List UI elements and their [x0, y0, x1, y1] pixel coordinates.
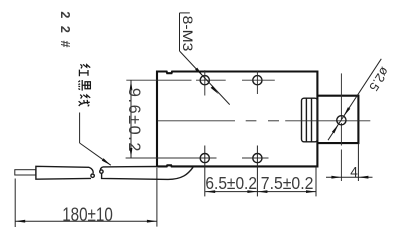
char hei [78, 80, 90, 91]
dimension 7.5±0.2 [257, 190, 267, 193]
svg-text:8-M3: 8-M3 [180, 16, 196, 52]
bobbin flange cap [302, 98, 318, 142]
char hong [79, 64, 90, 76]
dimension 9.6±0.2 line [130, 80, 132, 158]
dimension 180±10 [14, 179, 16, 228]
svg-text:7.5±0.2: 7.5±0.2 [261, 173, 314, 193]
solenoid body outline [157, 72, 317, 167]
main horizontal centerline [158, 120, 371, 122]
svg-text:4: 4 [350, 164, 358, 181]
hole vertical centerlines bottom + 6.5/7.5 extension lines [205, 146, 316, 197]
flange inner line 1 [305, 98, 307, 141]
break loop 2 [100, 170, 103, 173]
hole top-left [200, 76, 209, 85]
char xian [79, 95, 91, 107]
dimension 4 [357, 143, 359, 181]
label red-black wire (hand-drawn CJK) [78, 64, 90, 106]
dimension 6.5±0.2 [205, 191, 316, 193]
hole top-right [253, 76, 262, 85]
flange inner line 2 [311, 98, 313, 141]
diameter 2.5 leader [328, 59, 381, 140]
plunger block (right protrusion) [317, 96, 358, 143]
centerline bottom row / 9.6 extension [126, 157, 269, 159]
break loop 1 [91, 174, 94, 177]
hole bottom-left [200, 154, 209, 163]
centerline top row / 9.6 extension [126, 79, 274, 81]
svg-text:180±10: 180±10 [62, 204, 113, 226]
svg-text:22#: 22# [58, 11, 72, 47]
plunger hole vertical centerline [340, 73, 342, 181]
wire top edge to body [103, 166, 158, 168]
lead wire stripped end [15, 170, 36, 175]
hole vertical centerlines top [205, 70, 258, 95]
lead wire segment 1 [36, 166, 91, 179]
svg-text:6.5±0.2: 6.5±0.2 [205, 173, 257, 193]
8-M3 leader [180, 13, 230, 105]
wire label leader [80, 113, 111, 166]
hole bottom-right [253, 154, 262, 163]
lead wire segment 2 [100, 167, 102, 170]
plunger hole [337, 116, 346, 125]
